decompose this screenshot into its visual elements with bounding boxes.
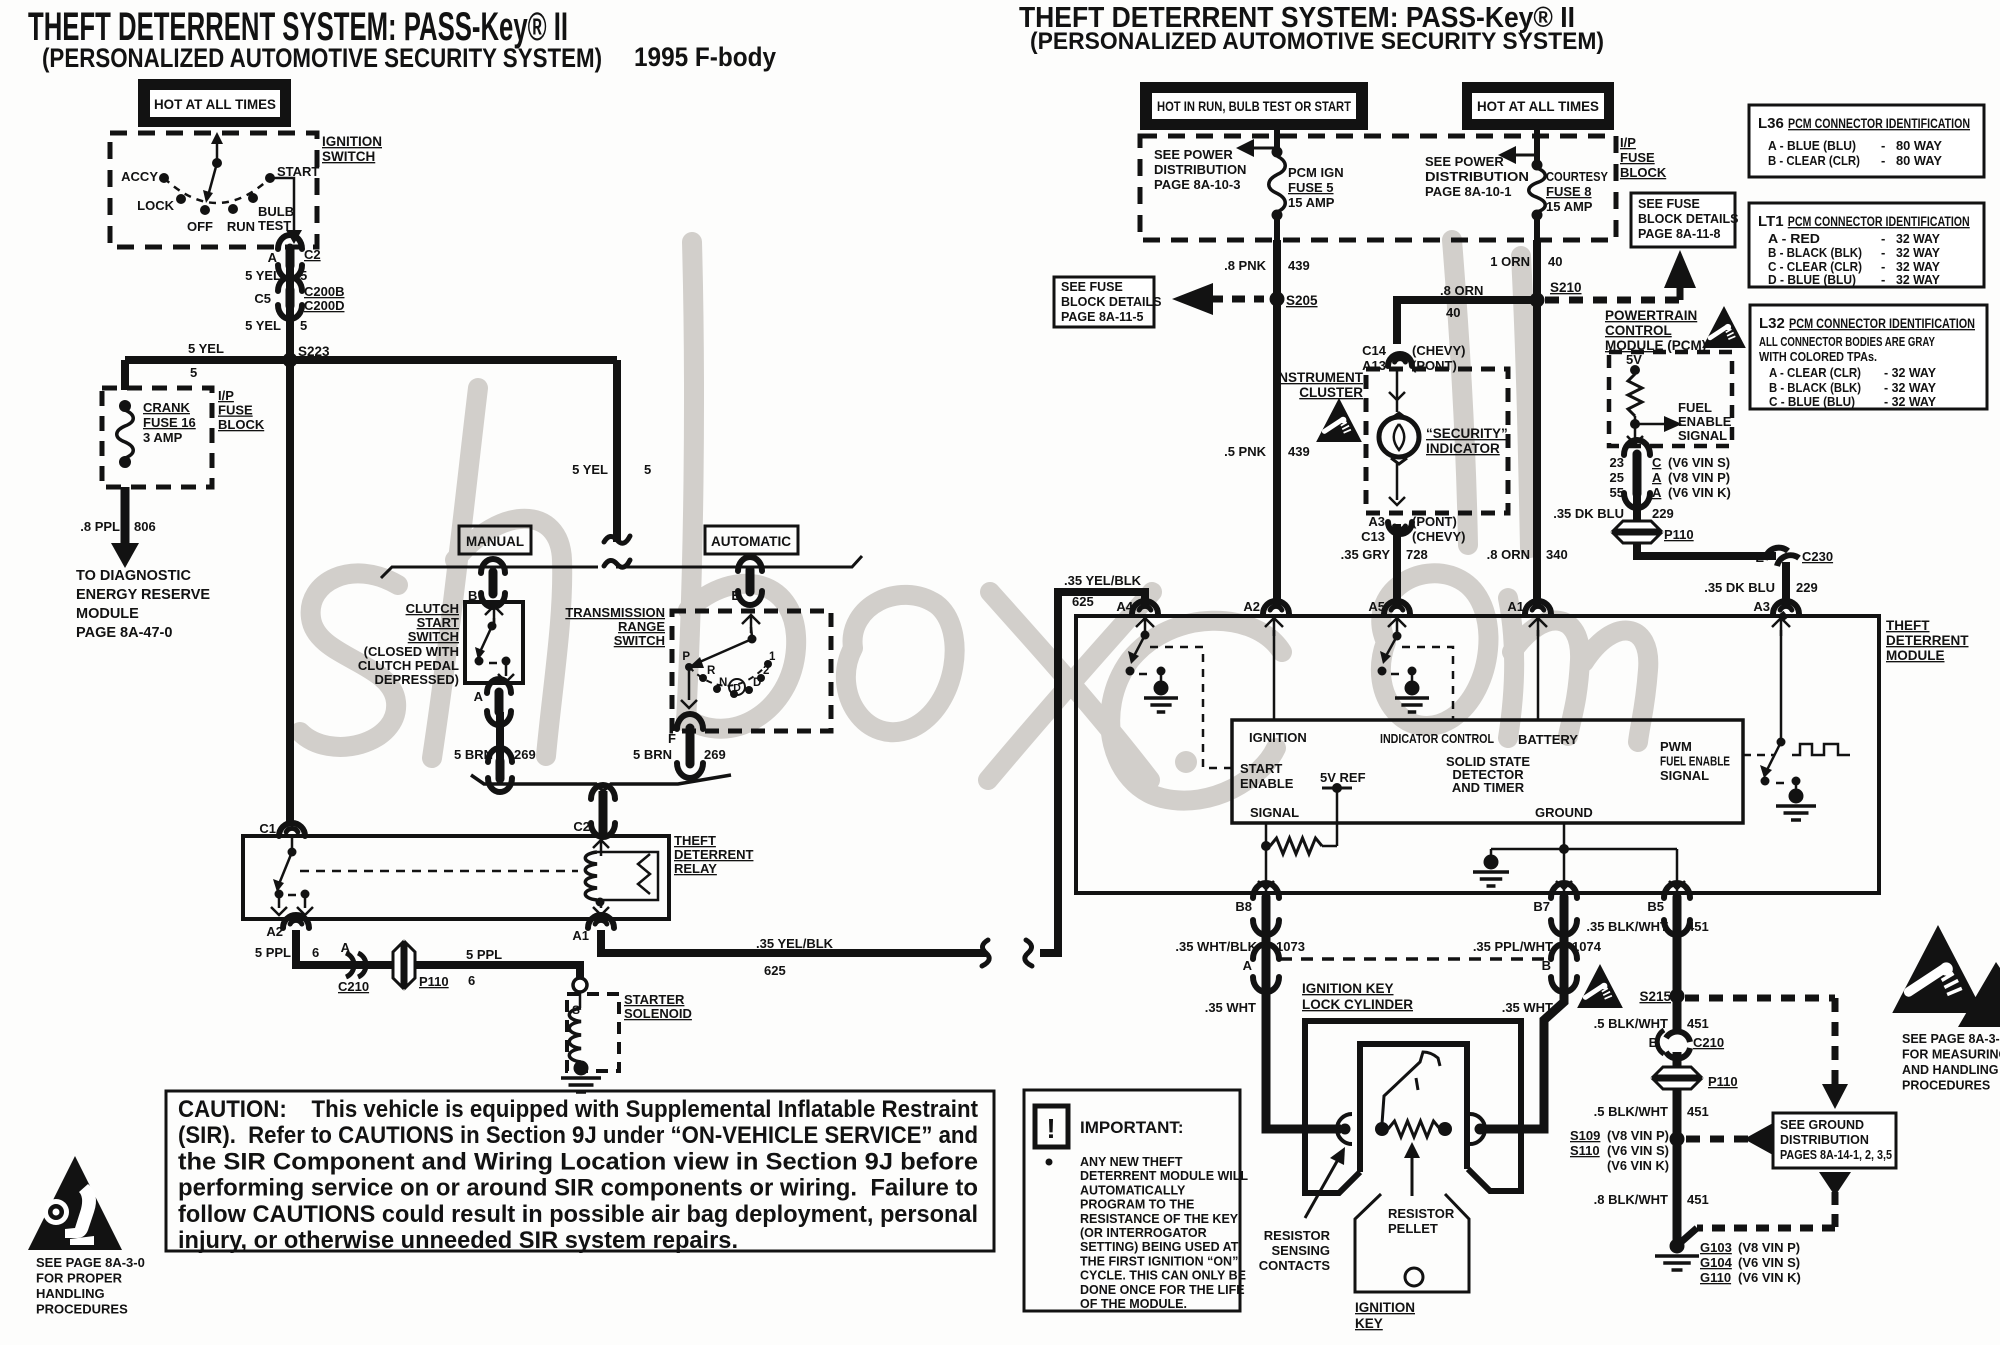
relay linkage dashed <box>300 870 578 873</box>
svg-text:TRANSMISSION: TRANSMISSION <box>565 605 665 620</box>
security indicator lamp <box>1379 368 1419 505</box>
svg-text:ENABLE: ENABLE <box>1240 776 1294 791</box>
svg-text:SIGNAL: SIGNAL <box>1250 805 1299 820</box>
svg-text:BLOCK DETAILS: BLOCK DETAILS <box>1638 212 1738 226</box>
svg-text:AUTOMATICALLY: AUTOMATICALLY <box>1080 1183 1186 1197</box>
svg-text:C200B: C200B <box>304 284 344 299</box>
svg-text:5 YEL: 5 YEL <box>188 341 224 356</box>
svg-text:N: N <box>719 677 727 689</box>
label BULB TEST <box>258 204 294 233</box>
svg-text:.8 PNK: .8 PNK <box>1224 258 1267 273</box>
lock cylinder inner housing <box>1360 1044 1467 1172</box>
svg-text:FUSE: FUSE <box>1620 150 1655 165</box>
wire A to C5 <box>286 264 294 290</box>
svg-text:RUN: RUN <box>227 219 255 234</box>
svg-text:5 YEL: 5 YEL <box>245 268 281 283</box>
svg-text:RESISTOR: RESISTOR <box>1264 1228 1331 1243</box>
svg-text:.8 PPL: .8 PPL <box>80 519 120 534</box>
relay coil <box>585 852 658 915</box>
svg-text:625: 625 <box>1072 594 1094 609</box>
svg-text:FUEL: FUEL <box>1678 400 1712 415</box>
svg-text:B7: B7 <box>1533 899 1550 914</box>
svg-text:32 WAY: 32 WAY <box>1896 245 1940 260</box>
clutch switch contacts <box>475 606 515 682</box>
svg-text:L36 PCM CONNECTOR IDENTIFICATI: L36 PCM CONNECTOR IDENTIFICATION <box>1758 115 1970 132</box>
A4 start enable switch <box>1126 618 1166 686</box>
svg-text:OF THE MODULE.: OF THE MODULE. <box>1080 1297 1187 1311</box>
relay C2 entry arrow <box>593 840 609 856</box>
svg-text:RELAY: RELAY <box>674 861 717 876</box>
dashed wire S109 to ground distribution <box>1686 1123 1773 1155</box>
svg-text:HOT IN RUN, BULB TEST OR START: HOT IN RUN, BULB TEST OR START <box>1157 99 1352 114</box>
svg-text:32 WAY: 32 WAY <box>1896 272 1940 287</box>
svg-text:LT1 PCM CONNECTOR IDENTIFICATI: LT1 PCM CONNECTOR IDENTIFICATION <box>1758 213 1970 230</box>
connector C210 pin B <box>1657 1030 1690 1058</box>
svg-text:SETTING) BEING USED AT: SETTING) BEING USED AT <box>1080 1240 1239 1254</box>
svg-text:AND TIMER: AND TIMER <box>1452 780 1525 795</box>
svg-text:LOCK CYLINDER: LOCK CYLINDER <box>1302 997 1413 1012</box>
svg-text:BLOCK: BLOCK <box>218 417 265 432</box>
ignition key head <box>1355 1194 1469 1292</box>
svg-text:.8 BLK/WHT: .8 BLK/WHT <box>1594 1192 1668 1207</box>
svg-text:L32 PCM CONNECTOR IDENTIFICATI: L32 PCM CONNECTOR IDENTIFICATION <box>1759 315 1975 332</box>
label 5 PPL 6 <box>255 945 319 960</box>
svg-text:DISTRIBUTION: DISTRIBUTION <box>1780 1133 1869 1147</box>
svg-text:80 WAY: 80 WAY <box>1896 138 1942 153</box>
wire S223 horizontal <box>125 356 617 364</box>
svg-text:6: 6 <box>312 945 319 960</box>
svg-text:-: - <box>1881 153 1885 168</box>
important box <box>1024 1090 1240 1311</box>
svg-text:PROCEDURES: PROCEDURES <box>1902 1079 1990 1093</box>
splice S109/S110 <box>1670 1132 1685 1147</box>
svg-text:A3: A3 <box>1368 514 1385 529</box>
wire PCM to P110 <box>1633 496 1641 522</box>
svg-text:1995 F-body: 1995 F-body <box>634 42 776 72</box>
svg-text:S215: S215 <box>1639 989 1671 1004</box>
ground A4 switch <box>1144 681 1178 713</box>
label SOLID STATE DETECTOR AND TIMER <box>1446 754 1530 795</box>
svg-text:(CHEVY): (CHEVY) <box>1412 529 1465 544</box>
arrow to diagnostic module <box>111 543 139 568</box>
svg-text:C: C <box>1652 455 1662 470</box>
wire A2 to starter solenoid <box>296 930 580 978</box>
connector B5 <box>1664 883 1690 935</box>
key hole <box>1405 1268 1423 1286</box>
svg-text:(PONT): (PONT) <box>1412 514 1457 529</box>
starter solenoid terminal <box>573 978 587 992</box>
svg-text:IGNITION: IGNITION <box>322 134 382 149</box>
svg-text:- 32 WAY: - 32 WAY <box>1884 380 1936 395</box>
svg-text:40: 40 <box>1446 305 1460 320</box>
svg-text:POWERTRAIN: POWERTRAIN <box>1605 308 1697 323</box>
label SEE POWER DISTRIBUTION PAGE 8A-10-1 <box>1425 154 1529 199</box>
wire PCM IGN fuse <box>1269 130 1286 240</box>
svg-text:A3: A3 <box>1753 599 1770 614</box>
label VIN variants <box>1668 455 1731 500</box>
svg-text:PAGE 8A-11-8: PAGE 8A-11-8 <box>1638 227 1720 241</box>
label THEFT DETERRENT RELAY <box>674 833 754 876</box>
svg-text:439: 439 <box>1288 258 1310 273</box>
theft deterrent relay box <box>243 836 669 919</box>
ground starter solenoid <box>561 1061 601 1093</box>
svg-text:WITH COLORED TPAs.: WITH COLORED TPAs. <box>1759 349 1877 364</box>
label G103 G104 G110 <box>1700 1240 1801 1285</box>
label FUEL ENABLE SIGNAL (PCM) <box>1678 400 1732 443</box>
svg-text:5: 5 <box>644 462 651 477</box>
svg-text:A: A <box>474 689 484 704</box>
svg-text:IGNITION: IGNITION <box>1249 730 1307 745</box>
wire to P110 <box>1673 1052 1682 1139</box>
svg-text:SOLENOID: SOLENOID <box>624 1006 692 1021</box>
label 5 YEL 5 (2) <box>245 318 307 333</box>
signal output wire <box>1258 823 1274 891</box>
connector B7 <box>1551 883 1577 935</box>
wire B5 down <box>1673 920 1682 1032</box>
svg-text:G103: G103 <box>1700 1240 1732 1255</box>
svg-text:.35 DK BLU: .35 DK BLU <box>1704 580 1775 595</box>
ground symbol inside module <box>1473 855 1509 887</box>
svg-text:injury, or otherwise unneeded: injury, or otherwise unneeded SIR system… <box>178 1227 738 1254</box>
svg-text:A - BLUE (BLU): A - BLUE (BLU) <box>1768 138 1856 153</box>
svg-text:32 WAY: 32 WAY <box>1896 231 1940 246</box>
label INSTRUMENT CLUSTER <box>1275 370 1364 400</box>
svg-text:TEST: TEST <box>258 218 291 233</box>
arrow below ground distribution box <box>1819 1172 1851 1196</box>
label 5 PPL 6 (2) <box>466 947 502 988</box>
wire B8 down <box>1262 920 1271 958</box>
svg-text:OFF: OFF <box>187 219 213 234</box>
svg-text:ALL CONNECTOR BODIES ARE GRAY: ALL CONNECTOR BODIES ARE GRAY <box>1759 334 1935 349</box>
svg-text:START: START <box>1240 761 1282 776</box>
PCM dashed box <box>1609 352 1732 446</box>
svg-text:G110: G110 <box>1700 1270 1731 1285</box>
label box AUTOMATIC <box>705 526 798 554</box>
label S109 S110 VIN <box>1570 1128 1669 1173</box>
svg-text:1: 1 <box>769 651 776 663</box>
connector A clutch <box>487 679 511 725</box>
svg-text:451: 451 <box>1687 1016 1709 1031</box>
signal pullup resistor <box>1270 790 1337 854</box>
svg-text:SEE FUSE: SEE FUSE <box>1638 197 1700 211</box>
ignition switch dashed box <box>110 133 317 247</box>
svg-text:.35 WHT/BLK: .35 WHT/BLK <box>1175 939 1257 954</box>
svg-text:.35 PPL/WHT: .35 PPL/WHT <box>1473 939 1553 954</box>
splice S223 <box>283 353 298 368</box>
svg-text:FOR PROPER: FOR PROPER <box>36 1271 123 1286</box>
svg-text:451: 451 <box>1687 1192 1709 1207</box>
important text <box>1080 1155 1248 1311</box>
svg-text:-: - <box>1881 245 1885 260</box>
resistor sensing contact left <box>1337 1114 1389 1144</box>
label (PONT) (CHEVY) bottom <box>1412 514 1465 544</box>
svg-text:B: B <box>1542 958 1551 973</box>
svg-text:.35 YEL/BLK: .35 YEL/BLK <box>1064 573 1142 588</box>
svg-text:- 32 WAY: - 32 WAY <box>1884 365 1936 380</box>
svg-text:F: F <box>668 731 676 746</box>
svg-text:DETERRENT: DETERRENT <box>1886 633 1969 648</box>
svg-text:BLOCK DETAILS: BLOCK DETAILS <box>1061 295 1161 309</box>
svg-text:IGNITION KEY: IGNITION KEY <box>1302 981 1394 996</box>
connector C2 relay feed <box>591 785 615 837</box>
svg-text:(OR INTERROGATOR: (OR INTERROGATOR <box>1080 1226 1207 1240</box>
label THEFT DETERRENT MODULE <box>1886 618 1969 663</box>
svg-text:23: 23 <box>1610 455 1624 470</box>
svg-text:HOT AT ALL TIMES: HOT AT ALL TIMES <box>154 97 276 112</box>
svg-text:5: 5 <box>190 365 197 380</box>
svg-text:1 ORN: 1 ORN <box>1490 254 1530 269</box>
label TO DIAGNOSTIC ENERGY RESERVE MODULE <box>76 568 210 641</box>
instrument cluster dashed box <box>1366 369 1508 513</box>
svg-text:DISTRIBUTION: DISTRIBUTION <box>1154 162 1246 177</box>
svg-text:MODULE: MODULE <box>76 606 139 622</box>
svg-text:RESISTOR: RESISTOR <box>1388 1206 1455 1221</box>
label .35 PPL/WHT 1074 <box>1473 939 1602 954</box>
lock cylinder outer housing <box>1305 1021 1521 1193</box>
svg-text:HANDLING: HANDLING <box>36 1286 105 1301</box>
SIR warning triangle <box>28 1156 122 1250</box>
connector C14/A13 <box>1388 354 1412 366</box>
svg-text:5V: 5V <box>1626 352 1642 367</box>
label TRANSMISSION RANGE SWITCH <box>565 605 665 648</box>
svg-text:(V6 VIN K): (V6 VIN K) <box>1738 1270 1801 1285</box>
svg-text:D: D <box>753 677 761 689</box>
label I/P FUSE BLOCK (right) <box>1620 135 1667 180</box>
svg-text:SEE PAGE 8A-3-0: SEE PAGE 8A-3-0 <box>36 1255 145 1270</box>
wire START to C2 <box>270 178 302 244</box>
wire B to lock cylinder <box>1484 978 1564 1129</box>
svg-text:RANGE: RANGE <box>618 619 665 634</box>
wire B7 down <box>1560 920 1569 958</box>
label .5 BLK/WHT 451 (2) <box>1594 1104 1709 1119</box>
svg-text:.8 ORN: .8 ORN <box>1487 547 1530 562</box>
svg-text:-: - <box>1881 272 1885 287</box>
svg-text:S110: S110 <box>1570 1143 1600 1158</box>
svg-text:ENERGY RESERVE: ENERGY RESERVE <box>76 587 210 603</box>
5V REF terminal <box>1322 783 1352 793</box>
svg-text:P110: P110 <box>1664 527 1694 542</box>
svg-text:I/P: I/P <box>218 388 234 403</box>
svg-text:MODULE: MODULE <box>1886 648 1945 663</box>
wire brace merge <box>471 775 731 791</box>
svg-text:5: 5 <box>300 318 307 333</box>
svg-text:CONTROL: CONTROL <box>1605 323 1672 338</box>
svg-text:15 AMP: 15 AMP <box>1546 199 1593 214</box>
svg-text:A2: A2 <box>266 924 283 939</box>
connector B clutch start switch <box>481 559 505 607</box>
svg-text:PAGE 8A-11-5: PAGE 8A-11-5 <box>1061 310 1143 324</box>
ground output network <box>1491 823 1685 891</box>
svg-text:C2: C2 <box>304 247 321 262</box>
svg-text:B - BLACK (BLK): B - BLACK (BLK) <box>1768 245 1862 260</box>
svg-text:BULB: BULB <box>258 204 294 219</box>
svg-text:.5 BLK/WHT: .5 BLK/WHT <box>1594 1016 1668 1031</box>
svg-text:A: A <box>268 250 278 265</box>
svg-text:IMPORTANT:: IMPORTANT: <box>1080 1118 1184 1137</box>
box SEE GROUND DISTRIBUTION <box>1773 1113 1896 1168</box>
svg-text:the SIR Component and Wiring L: the SIR Component and Wiring Location vi… <box>178 1148 978 1175</box>
svg-text:A: A <box>1243 958 1253 973</box>
label I/P FUSE BLOCK (left) <box>218 388 265 432</box>
label 5 BRN 269 (right) <box>633 747 726 762</box>
splice S210 <box>1530 293 1545 308</box>
starter solenoid coil <box>569 992 581 1070</box>
svg-text:A - CLEAR (CLR): A - CLEAR (CLR) <box>1769 365 1861 380</box>
svg-text:(SIR). Refer to CAUTIONS in S: (SIR). Refer to CAUTIONS in Section 9J u… <box>178 1122 978 1149</box>
svg-text:S109: S109 <box>1570 1128 1600 1143</box>
I/P fuse block dashed box <box>1140 136 1616 240</box>
wire P110 to C230 <box>1637 542 1776 556</box>
svg-text:PAGE 8A-47-0: PAGE 8A-47-0 <box>76 625 172 641</box>
svg-text:.35 WHT: .35 WHT <box>1205 1000 1256 1015</box>
svg-text:439: 439 <box>1288 444 1310 459</box>
label 5 YEL 5 <box>245 268 307 283</box>
connector E range switch <box>738 557 762 605</box>
svg-text:451: 451 <box>1687 919 1709 934</box>
svg-text:LOCK: LOCK <box>137 198 174 213</box>
svg-text:B: B <box>1649 1035 1658 1050</box>
svg-text:INSTRUMENT: INSTRUMENT <box>1275 370 1364 385</box>
svg-text:B - CLEAR (CLR): B - CLEAR (CLR) <box>1768 153 1860 168</box>
svg-text:6: 6 <box>468 973 475 988</box>
label 5 BRN 269 (left) <box>454 747 536 762</box>
wire break at manual/automatic split <box>604 536 630 567</box>
svg-text:B - BLACK (BLK): B - BLACK (BLK) <box>1769 380 1861 395</box>
key blade profile <box>1382 1052 1440 1124</box>
label .35 BLK/WHT 451 <box>1586 919 1708 934</box>
dashed link solid state to pwm switch <box>1743 754 1775 757</box>
svg-text:C13: C13 <box>1361 529 1385 544</box>
svg-text:P110: P110 <box>1708 1074 1738 1089</box>
connector C5 / C200B C200D <box>278 277 302 319</box>
wire ORN down <box>1533 240 1541 607</box>
table LT1 PCM connector identification <box>1749 203 1984 287</box>
svg-text:A: A <box>341 940 351 955</box>
connector A3 module <box>1773 601 1799 614</box>
label .35 DK BLU 229 (module) <box>1704 580 1818 595</box>
svg-text:.5 BLK/WHT: .5 BLK/WHT <box>1594 1104 1668 1119</box>
connector A4 <box>1132 601 1158 614</box>
A1 wire to battery input <box>1529 618 1547 720</box>
label .8 ORN 340 <box>1487 547 1568 562</box>
svg-text:SWITCH: SWITCH <box>614 633 665 648</box>
svg-text:C210: C210 <box>338 979 369 994</box>
svg-text:.8 ORN: .8 ORN <box>1440 283 1483 298</box>
label .8 PNK 439 <box>1224 258 1310 273</box>
svg-text:(V6 VIN S): (V6 VIN S) <box>1668 455 1730 470</box>
svg-text:A: A <box>1652 470 1662 485</box>
svg-text:PROGRAM TO THE: PROGRAM TO THE <box>1080 1198 1194 1212</box>
svg-text:229: 229 <box>1652 506 1674 521</box>
svg-text:CYCLE. THIS CAN ONLY BE: CYCLE. THIS CAN ONLY BE <box>1080 1269 1246 1283</box>
svg-text:SEE GROUND: SEE GROUND <box>1780 1118 1864 1132</box>
svg-text:451: 451 <box>1687 1104 1709 1119</box>
A5 indicator control switch <box>1378 618 1417 686</box>
svg-text:80 WAY: 80 WAY <box>1896 153 1942 168</box>
svg-text:STARTER: STARTER <box>624 992 685 1007</box>
connector C230 <box>1765 548 1799 566</box>
label .5 BLK/WHT 451 <box>1594 1016 1709 1031</box>
svg-text:PCM IGN: PCM IGN <box>1288 165 1344 180</box>
svg-text:(V8 VIN P): (V8 VIN P) <box>1668 470 1730 485</box>
label .5 PNK 439 <box>1224 444 1310 459</box>
svg-text:A - RED: A - RED <box>1768 231 1820 246</box>
dashed arrow to fuse block details <box>1172 283 1264 315</box>
svg-text:-: - <box>1881 138 1885 153</box>
svg-text:(V6 VIN S): (V6 VIN S) <box>1738 1255 1800 1270</box>
ground A5 switch <box>1395 681 1429 713</box>
svg-text:“SECURITY”: “SECURITY” <box>1426 426 1508 441</box>
connector A (key harness) <box>1253 944 1279 992</box>
svg-text:E: E <box>731 588 740 603</box>
wire GRY down to A5 <box>1393 524 1401 607</box>
svg-text:C - BLUE (BLU): C - BLUE (BLU) <box>1769 394 1855 409</box>
important bullet <box>1046 1159 1053 1166</box>
wire to ground G103 <box>1673 1139 1682 1243</box>
svg-text:C230: C230 <box>1802 549 1833 564</box>
wire fuse to arrow <box>121 487 130 545</box>
solid state detector inner box <box>1232 720 1743 823</box>
label SECURITY INDICATOR <box>1426 426 1508 456</box>
label PWM FUEL ENABLE SIGNAL <box>1660 739 1730 783</box>
label .35 DK BLU 229 (PCM) <box>1553 506 1674 521</box>
clutch start switch box <box>465 602 523 683</box>
svg-text:FUEL ENABLE: FUEL ENABLE <box>1660 754 1730 769</box>
svg-text:SEE POWER: SEE POWER <box>1425 154 1504 169</box>
label STARTER SOLENOID <box>624 992 692 1021</box>
ESD triangle measuring <box>1892 925 2000 1027</box>
svg-text:.5 PNK: .5 PNK <box>1224 444 1267 459</box>
svg-text:55: 55 <box>1610 485 1624 500</box>
dashed wire S210 to fuse block details 8A-11-8 <box>1545 250 1696 300</box>
range switch contacts <box>681 615 772 708</box>
ground A3 pwm switch <box>1776 789 1816 821</box>
label SEE PAGE 8A-3-0 FOR MEASURING AND HANDLING PROCEDURES <box>1902 1032 2000 1093</box>
svg-text:PAGE 8A-10-3: PAGE 8A-10-3 <box>1154 177 1240 192</box>
svg-text:CAUTION: This vehicle is eq: CAUTION: This vehicle is equipped with S… <box>178 1096 978 1123</box>
connector A2 module <box>1263 601 1289 614</box>
pwm square wave symbol <box>1792 744 1850 755</box>
svg-text:5 YEL: 5 YEL <box>572 462 608 477</box>
label IGNITION KEY LOCK CYLINDER <box>1302 981 1413 1012</box>
label D circled <box>729 679 745 695</box>
arrow resistor pellet <box>1404 1142 1420 1196</box>
connector A3/C13 <box>1388 522 1412 534</box>
svg-text:P: P <box>682 651 690 663</box>
svg-text:269: 269 <box>704 747 726 762</box>
wire branch down to crank fuse <box>121 360 129 390</box>
ESD triangle key harness <box>1577 964 1623 1008</box>
svg-text:CLUSTER: CLUSTER <box>1299 385 1363 400</box>
label COURTESY FUSE 8 15 AMP <box>1546 169 1608 214</box>
caution text <box>178 1096 978 1254</box>
splice S215 <box>1670 989 1685 1004</box>
svg-text:AND HANDLING: AND HANDLING <box>1902 1063 1999 1077</box>
svg-text:AUTOMATIC: AUTOMATIC <box>711 534 791 549</box>
svg-text:CLUTCH: CLUTCH <box>406 601 459 616</box>
svg-text:INDICATOR CONTROL: INDICATOR CONTROL <box>1380 731 1494 746</box>
svg-text:S210: S210 <box>1550 280 1582 295</box>
arrow see power distribution right <box>1498 146 1537 164</box>
label RESISTOR PELLET <box>1388 1206 1455 1236</box>
svg-text:S205: S205 <box>1286 293 1318 308</box>
svg-text:A1: A1 <box>572 928 589 943</box>
svg-text:ACCY: ACCY <box>121 169 158 184</box>
label SEE POWER DISTRIBUTION PAGE 8A-10-3 <box>1154 147 1246 192</box>
svg-text:- 32 WAY: - 32 WAY <box>1884 394 1936 409</box>
svg-text:40: 40 <box>1548 254 1562 269</box>
svg-text:DETERRENT: DETERRENT <box>674 847 754 862</box>
